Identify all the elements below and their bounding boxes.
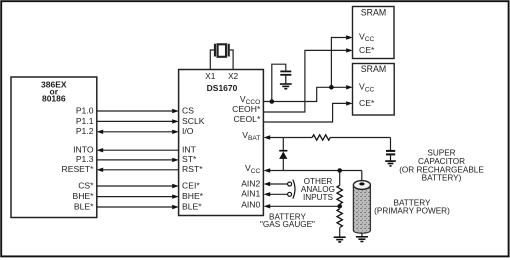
SRAM U4 (lower) bbox=[353, 64, 395, 116]
svg-text:INTO: INTO bbox=[73, 145, 94, 155]
resistor R1 (charge current limit) bbox=[312, 135, 330, 140]
label BATTERY (PRIMARY POWER) bbox=[374, 199, 450, 216]
svg-text:P1.0: P1.0 bbox=[76, 105, 94, 115]
svg-text:RST*: RST* bbox=[182, 164, 203, 174]
ground (C1) bbox=[280, 84, 292, 89]
svg-text:CE*: CE* bbox=[359, 98, 375, 108]
wire AIN0 net (gas gauge tap) bbox=[270, 205, 340, 207]
wire AIN2 net bbox=[270, 183, 288, 185]
ground (divider) bbox=[334, 237, 346, 242]
battery BT1 primary cell bbox=[353, 181, 370, 237]
wire CS net (P1.0 to CS) bbox=[97, 109, 179, 113]
resistor R3 (gas gauge lower) bbox=[337, 209, 342, 228]
ground (C2) bbox=[385, 161, 396, 166]
svg-text:SRAM: SRAM bbox=[361, 64, 386, 74]
wire BHE* net bbox=[97, 194, 179, 198]
svg-text:X2: X2 bbox=[228, 71, 239, 81]
svg-text:80186: 80186 bbox=[42, 93, 66, 103]
terminal AIN1 input bbox=[288, 192, 292, 196]
arrowhead into U4 VCC bbox=[346, 85, 353, 89]
junction VCCO branch bbox=[270, 99, 275, 104]
diode D1 bbox=[279, 138, 287, 171]
svg-text:BLE*: BLE* bbox=[74, 202, 94, 212]
wire divider top lead bbox=[339, 171, 341, 186]
svg-text:ST*: ST* bbox=[182, 154, 197, 164]
svg-text:(PRIMARY POWER): (PRIMARY POWER) bbox=[374, 207, 450, 216]
svg-text:CS*: CS* bbox=[78, 181, 94, 191]
brace grouping analog inputs bbox=[293, 180, 295, 199]
svg-text:I/O: I/O bbox=[182, 126, 194, 136]
svg-text:DS1670: DS1670 bbox=[207, 83, 238, 93]
wire INT net (INT to INT0) bbox=[97, 148, 179, 152]
svg-text:CE*: CE* bbox=[359, 45, 375, 55]
svg-text:CEI*: CEI* bbox=[182, 181, 200, 191]
capacitor C1 decoupling bbox=[280, 71, 291, 83]
label BATTERY GAS GAUGE bbox=[260, 213, 315, 230]
IC U1 386EX/80186 microprocessor bbox=[11, 77, 97, 218]
svg-text:RESET*: RESET* bbox=[62, 164, 95, 174]
svg-text:X1: X1 bbox=[205, 71, 216, 81]
wire AIN1 net bbox=[270, 193, 288, 195]
svg-text:P1.2: P1.2 bbox=[76, 126, 94, 136]
svg-text:CEOL*: CEOL* bbox=[234, 114, 261, 124]
arrowhead into AIN2 pin bbox=[264, 182, 271, 186]
svg-text:AIN1: AIN1 bbox=[241, 189, 260, 199]
wire VCC net bbox=[270, 171, 362, 183]
resistor R2 (gas gauge upper) bbox=[337, 185, 342, 204]
arrowhead into U4 CE* bbox=[346, 101, 353, 105]
arrowhead into U3 CE* bbox=[346, 48, 353, 52]
wire CEOL* net bbox=[263, 103, 346, 122]
junction AIN0 tap bbox=[337, 204, 342, 209]
wire I/O net (P1.2 to I/O, bidirectional) bbox=[97, 130, 179, 134]
arrowhead into VCC pin bbox=[264, 168, 271, 172]
wire VCCO net trunk bbox=[263, 38, 346, 102]
junction at U4 VCC branch bbox=[329, 85, 334, 90]
svg-text:CEOH*: CEOH* bbox=[232, 104, 261, 114]
label OTHER ANALOG INPUTS bbox=[301, 177, 335, 202]
wire VCCO to decoupling capacitor bbox=[272, 64, 286, 101]
svg-text:"GAS GAUGE": "GAS GAUGE" bbox=[260, 220, 315, 229]
svg-text:INT: INT bbox=[182, 145, 197, 155]
arrowhead into VBAT pin bbox=[264, 135, 271, 139]
capacitor C2 super capacitor bbox=[386, 151, 395, 161]
svg-text:P1.3: P1.3 bbox=[76, 154, 94, 164]
junction VCC / gas gauge divider bbox=[337, 168, 342, 173]
wire ST* net (P1.3 to ST*) bbox=[97, 158, 179, 162]
arrowhead into AIN0 pin bbox=[264, 204, 271, 208]
wire SCLK net (P1.1 to SCLK) bbox=[97, 119, 179, 123]
svg-text:BHE*: BHE* bbox=[72, 191, 94, 201]
crystal Y1 32kHz bbox=[210, 44, 233, 70]
wire CEI* net (CS* to CEI*) bbox=[97, 184, 179, 188]
svg-text:BHE*: BHE* bbox=[182, 191, 204, 201]
arrowhead into U3 VCC bbox=[346, 35, 353, 39]
wire BLE* net bbox=[97, 205, 179, 209]
IC U2 DS1670 system monitor bbox=[179, 70, 264, 216]
arrowhead into AIN1 pin bbox=[264, 192, 271, 196]
wire VBAT net bbox=[270, 138, 391, 151]
svg-text:INPUTS: INPUTS bbox=[303, 193, 334, 202]
wire RST* net (RST* to RESET*) bbox=[97, 168, 179, 172]
terminal AIN2 input bbox=[288, 182, 292, 186]
svg-text:AIN2: AIN2 bbox=[241, 178, 260, 188]
SRAM U3 (upper) bbox=[353, 7, 395, 59]
label SUPER CAPACITOR (OR RECHARGEABLE BATTERY) bbox=[399, 149, 484, 183]
svg-text:BLE*: BLE* bbox=[182, 202, 202, 212]
ground (battery) bbox=[356, 237, 368, 242]
svg-text:SRAM: SRAM bbox=[361, 8, 386, 18]
svg-text:BATTERY): BATTERY) bbox=[422, 174, 462, 183]
svg-text:P1.1: P1.1 bbox=[76, 116, 94, 126]
svg-text:CS: CS bbox=[182, 105, 194, 115]
wire divider bottom lead bbox=[339, 228, 341, 237]
svg-text:SCLK: SCLK bbox=[182, 116, 205, 126]
wire CEOH* net bbox=[263, 50, 346, 112]
svg-text:AIN0: AIN0 bbox=[241, 200, 260, 210]
